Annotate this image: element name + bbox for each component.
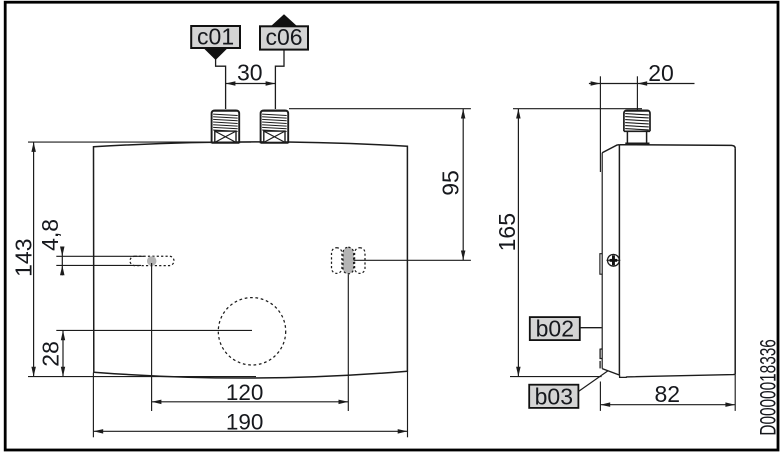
svg-text:30: 30 [237, 60, 263, 86]
svg-text:143: 143 [11, 239, 37, 277]
dimension 82: right extension line [734, 375, 736, 411]
dimension 120: left extension line [151, 263, 153, 411]
svg-text:b02: b02 [536, 315, 574, 341]
dimension 190: left extension line [92, 373, 94, 438]
dimension 28: vertical dimension line [62, 330, 64, 376]
label c06 (hot water outlet) [260, 26, 308, 49]
dimension 20: left extension line [599, 76, 601, 172]
front view: heater body outline [94, 142, 408, 378]
dimension 20: dimension line and outside arrows [589, 83, 638, 85]
dimension 95: leader from right slot center [354, 259, 471, 261]
dimension 143: bottom extension line [28, 376, 256, 378]
side view: front crease line [618, 145, 620, 375]
dimension 30: pipe spacing [226, 83, 276, 85]
gray mounting point dot in left slot [147, 256, 157, 266]
dashed circle: cable entry [218, 298, 285, 365]
cold water pipe fitting (front view left) [212, 110, 240, 143]
dimension 165: vertical dimension line [517, 109, 519, 377]
marker diamond below c01 [204, 48, 228, 60]
label c01 (cold water inlet) [191, 26, 240, 48]
svg-text:165: 165 [494, 213, 520, 251]
svg-text:120: 120 [226, 380, 264, 405]
hot water pipe fitting (front view right) [261, 110, 289, 143]
lower clip bracket on front face [600, 349, 602, 359]
side view: top front bevel [602, 145, 619, 153]
svg-text:20: 20 [648, 60, 674, 86]
svg-text:82: 82 [655, 381, 681, 407]
svg-text:95: 95 [437, 170, 463, 196]
dimension 120: right extension line [347, 275, 349, 412]
dimension 95: extension line top (fitting top level) [289, 108, 471, 110]
svg-text:190: 190 [226, 410, 264, 435]
right mounting slots: middle gray pill [343, 247, 354, 273]
side view: back edge [734, 148, 736, 374]
dimension 82: left extension line [599, 382, 601, 411]
screw on side crease [608, 254, 620, 266]
leader line from c06 to right pipe [275, 50, 284, 109]
dimension 82: dimension line [600, 404, 735, 406]
label b02 with leader [530, 317, 580, 340]
side view fitting neck [624, 130, 650, 132]
svg-text:c01: c01 [197, 24, 234, 50]
svg-text:b03: b03 [535, 383, 573, 409]
left keyhole mounting slot (dashed) [130, 256, 174, 265]
dimension 143: top extension line [28, 141, 251, 143]
dimension 165: bottom extension line [510, 376, 602, 378]
upper clip bracket on front face [600, 254, 602, 275]
dimension 28: leader to circle centre [56, 329, 252, 331]
dimension 4,8: dimension line with outside arrows [61, 247, 63, 275]
marker diamond above c06 [271, 14, 297, 26]
side view: bottom edge [626, 374, 735, 377]
dimension 95: vertical dimension line [462, 109, 464, 261]
side view fitting base on body top [625, 143, 649, 145]
side view: bottom front bevel [602, 369, 619, 376]
svg-text:D0000018336: D0000018336 [756, 339, 781, 436]
dimension 143: vertical dimension line [33, 142, 35, 377]
dimension 120: dimension line [152, 401, 349, 403]
label b03 with leader [529, 385, 578, 408]
dimension 165: top extension line [513, 108, 642, 110]
side view: bottom foot step [620, 375, 627, 377]
right mounting slots: right dashed pill [355, 248, 365, 274]
dimension 20: pipe centre extension line [636, 76, 638, 110]
svg-text:28: 28 [38, 341, 64, 367]
dimension 190: dimension line [93, 430, 407, 432]
svg-text:c06: c06 [265, 24, 302, 50]
right mounting slots: left dashed pill [332, 248, 342, 274]
leader line from c01 to left pipe [216, 59, 226, 109]
dimension 190: right extension line [407, 372, 409, 438]
dimension 4,8: lower extension line [56, 264, 141, 266]
side view: front face line [601, 153, 603, 369]
dimension 4,8: upper extension line [56, 255, 144, 257]
svg-text:4,8: 4,8 [37, 219, 63, 251]
side view pipe fitting (threaded nipple) [624, 110, 650, 131]
side view: top edge of body [619, 145, 735, 149]
